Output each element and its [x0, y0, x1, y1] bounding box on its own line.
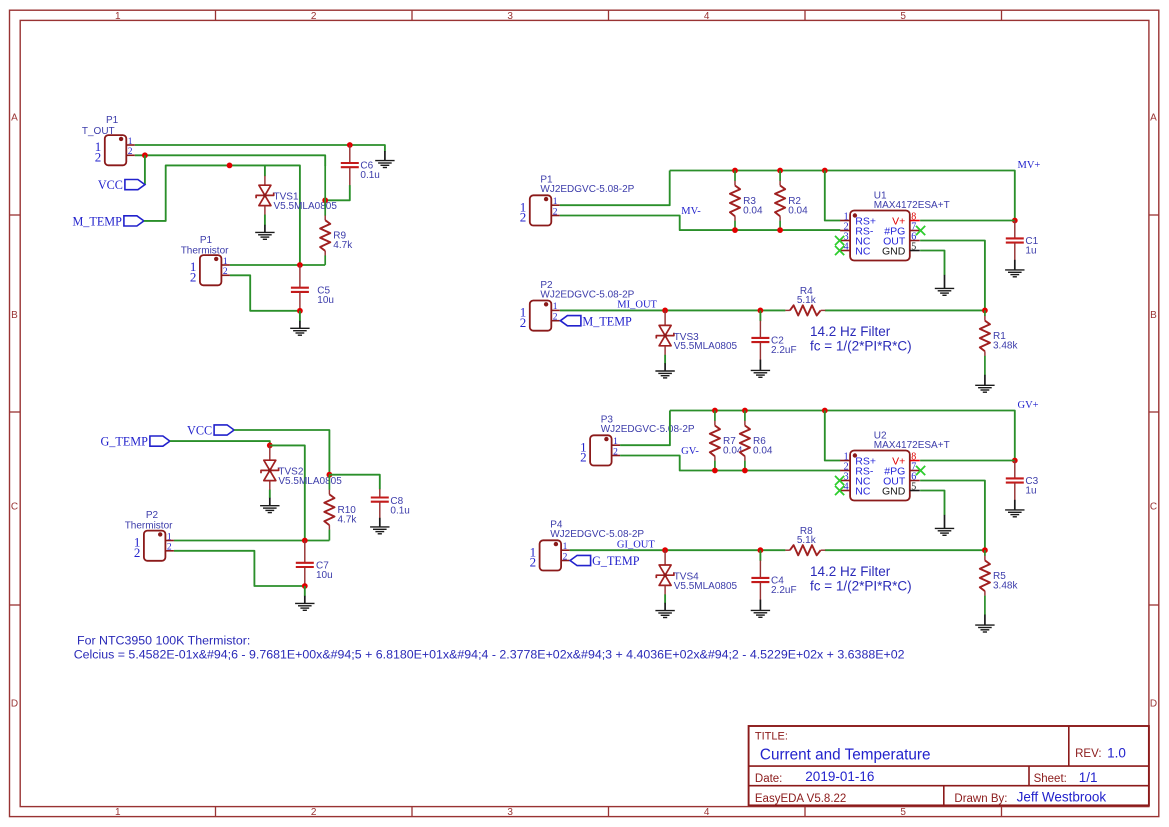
netflag G_TEMP (bottom-left)	[100, 435, 169, 449]
svg-text:0.04: 0.04	[743, 205, 763, 216]
wire TVS3 to ground	[664, 355, 666, 364]
junction R1 top	[982, 308, 988, 314]
svg-text:1: 1	[167, 532, 172, 542]
ground stub (C8)	[379, 518, 381, 527]
ground (C3)	[1005, 510, 1024, 517]
svg-text:0.04: 0.04	[723, 445, 743, 456]
C3 top lead	[1014, 461, 1016, 479]
C8 bottom lead	[379, 502, 381, 519]
wire TVS1 tap	[264, 165, 266, 176]
junction C5 top	[297, 262, 303, 268]
ground (TVS1)	[255, 232, 274, 239]
junction C2	[758, 308, 764, 314]
ground (C2)	[751, 370, 770, 377]
svg-text:G_TEMP: G_TEMP	[100, 435, 148, 449]
netflag VCC (top-left)	[98, 178, 145, 192]
wire P1.1 riser to rail	[560, 171, 670, 206]
svg-text:MAX4172ESA+T: MAX4172ESA+T	[874, 440, 950, 451]
junction C4	[758, 547, 764, 553]
junction rail R7	[712, 408, 718, 414]
no-connect X pin7 U1	[916, 226, 925, 235]
junction C5 bottom	[297, 308, 303, 314]
netflag G_TEMP (P4 pin2)	[570, 554, 640, 568]
wire GND pin to ground (U2)	[920, 491, 944, 516]
svg-text:2: 2	[553, 207, 558, 217]
svg-text:1: 1	[563, 542, 568, 552]
wire MV+ rail	[670, 171, 1015, 221]
svg-text:2: 2	[563, 552, 568, 562]
svg-text:5: 5	[900, 11, 906, 22]
svg-text:4: 4	[704, 807, 710, 818]
wire GI_OUT line right	[825, 549, 985, 551]
wire TVS1 to ground	[264, 215, 266, 226]
junction at VCC tap	[142, 152, 148, 158]
svg-text:Celcius = 5.4582E-01x&#94;6 -: Celcius = 5.4582E-01x&#94;6 - 9.7681E+00…	[74, 648, 905, 662]
C2 bottom lead	[759, 342, 761, 360]
wire P1.2 to RS-	[560, 216, 841, 231]
TVS1 top lead	[264, 176, 266, 185]
wire down to VCC flag	[144, 155, 146, 184]
svg-text:2: 2	[167, 543, 172, 553]
svg-text:1.0: 1.0	[1107, 745, 1126, 760]
svg-text:VCC: VCC	[187, 424, 212, 438]
wire therm2 pin2	[174, 551, 305, 586]
svg-text:C: C	[1150, 502, 1157, 513]
resistor R3 0.04	[730, 171, 763, 231]
junction RS- R3	[732, 227, 738, 233]
svg-text:A: A	[1150, 113, 1157, 124]
TVS4 bottom lead	[664, 585, 666, 594]
ground stub (C4)	[759, 600, 761, 611]
capacitor C4 2.2uF	[751, 576, 796, 597]
TVS diode TVS1	[256, 185, 337, 212]
C7 top lead	[304, 541, 306, 563]
ground (C8)	[370, 527, 389, 534]
ground (TVS2)	[260, 506, 279, 513]
connector P2 (WJ2EDGVC)	[520, 301, 560, 331]
svg-text:2: 2	[553, 313, 558, 323]
junction R5 top	[982, 547, 988, 553]
wire V+ to C1	[920, 220, 1015, 222]
connector P2 (Thermistor)	[134, 531, 174, 561]
netflag M_TEMP (P2 pin2)	[560, 314, 632, 328]
svg-text:2: 2	[128, 147, 133, 157]
svg-text:2: 2	[520, 315, 527, 330]
ground stub (U2 GND)	[944, 515, 946, 529]
svg-text:Current and Temperature: Current and Temperature	[760, 746, 931, 763]
svg-text:GV+: GV+	[1018, 400, 1039, 411]
junction RS- R6	[742, 468, 748, 474]
no-connect X pin3 U2	[835, 476, 844, 485]
connector P3 (WJ2EDGVC)	[580, 435, 620, 465]
ground (C5)	[290, 328, 309, 335]
svg-text:2: 2	[530, 555, 537, 570]
TVS diode TVS3	[656, 325, 737, 352]
ground stub (U1 GND)	[944, 275, 946, 289]
C7 bottom lead	[304, 567, 306, 586]
C4 top lead	[759, 561, 761, 578]
junction C6 top	[347, 142, 353, 148]
svg-text:3: 3	[507, 11, 513, 22]
junction VCC/R10/C8	[327, 472, 333, 478]
junction C7 top	[302, 538, 308, 544]
TVS2 bottom lead	[269, 481, 271, 490]
wire V+ to C3	[920, 460, 1015, 462]
svg-text:4.7k: 4.7k	[333, 240, 353, 251]
wire OUT to R1 node	[920, 241, 985, 311]
C3 bottom lead	[1014, 483, 1016, 501]
connector P1 (Thermistor)	[190, 255, 230, 285]
wire C2 tap	[759, 310, 761, 321]
resistor R7 0.04	[710, 411, 743, 471]
no-connect X pin3 U1	[835, 236, 844, 245]
svg-text:2019-01-16: 2019-01-16	[805, 769, 874, 784]
junction on node line	[227, 163, 233, 169]
svg-text:A: A	[11, 113, 18, 124]
op-amp U2 MAX4172ESA+T	[840, 430, 950, 500]
junction TVS3	[662, 308, 668, 314]
svg-text:10u: 10u	[317, 295, 334, 306]
junction TVS4	[662, 547, 668, 553]
svg-text:1: 1	[553, 302, 558, 312]
svg-text:5.1k: 5.1k	[797, 295, 817, 306]
wire P3.1 riser to rail	[620, 411, 670, 446]
ground (C1)	[1005, 270, 1024, 277]
svg-text:0.1u: 0.1u	[360, 170, 379, 181]
wire VCC to R10 column	[234, 430, 329, 475]
svg-text:GI_OUT: GI_OUT	[617, 539, 655, 550]
ground stub (TVS2)	[269, 498, 271, 506]
ground stub (C5)	[299, 321, 301, 329]
ground stub (R5)	[984, 615, 986, 626]
svg-text:GV-: GV-	[681, 446, 699, 457]
svg-text:D: D	[11, 699, 18, 710]
svg-text:P1: P1	[200, 235, 213, 246]
TVS diode TVS4	[656, 565, 737, 592]
svg-text:14.2 Hz Filter: 14.2 Hz Filter	[810, 324, 891, 339]
svg-text:Jeff Westbrook: Jeff Westbrook	[1017, 790, 1107, 805]
svg-text:M_TEMP: M_TEMP	[582, 314, 632, 328]
svg-text:5: 5	[911, 482, 916, 493]
svg-text:B: B	[1150, 310, 1157, 321]
wire C6 to R9 column	[325, 185, 350, 200]
wire C5 to ground	[299, 311, 301, 321]
svg-text:1: 1	[223, 257, 228, 267]
junction C7 bottom	[302, 583, 308, 589]
connector P4 (WJ2EDGVC)	[530, 540, 570, 570]
capacitor C6 0.1u	[341, 161, 380, 182]
wire thermistor pin1	[230, 264, 325, 266]
svg-text:2: 2	[190, 270, 197, 285]
junction RS- R2	[777, 227, 783, 233]
svg-text:2: 2	[613, 447, 618, 457]
ground stub (C2)	[759, 360, 761, 371]
svg-text:V5.5MLA0805: V5.5MLA0805	[674, 581, 738, 592]
TVS3 top lead	[664, 310, 666, 325]
wire RS+ from rail (G)	[825, 411, 841, 461]
svg-text:B: B	[11, 310, 18, 321]
ground (R1)	[975, 385, 994, 392]
wire C7 to ground	[304, 586, 306, 596]
junction TVS2	[267, 443, 273, 449]
capacitor C3 1u	[1006, 476, 1039, 497]
junction rail RS+	[822, 168, 828, 174]
TVS1 bottom lead	[264, 206, 266, 215]
svg-text:1: 1	[128, 137, 133, 147]
resistor R4 5.1k	[785, 286, 825, 316]
wire therm2 pin1	[174, 540, 330, 542]
title block grid	[749, 726, 1149, 805]
svg-text:MAX4172ESA+T: MAX4172ESA+T	[874, 200, 950, 211]
junction rail R3	[732, 168, 738, 174]
junction V+ / C3	[1012, 458, 1018, 464]
svg-text:2: 2	[520, 210, 527, 225]
wire thermistor pin2	[230, 275, 300, 311]
junction RS- R7	[712, 468, 718, 474]
resistor R5 3.48k	[980, 550, 1019, 615]
svg-text:0.04: 0.04	[753, 445, 773, 456]
capacitor C5 10u	[291, 285, 334, 306]
svg-text:GND: GND	[882, 245, 906, 257]
TVS2 top lead	[269, 445, 271, 460]
C1 bottom lead	[1014, 243, 1016, 261]
capacitor C1 1u	[1006, 236, 1039, 257]
TVS diode TVS2	[261, 460, 342, 487]
wire GND pin to ground	[920, 251, 944, 276]
junction V+ / C1	[1012, 218, 1018, 224]
ground (top right)	[384, 151, 386, 161]
svg-text:TITLE:: TITLE:	[755, 730, 788, 742]
wire RS+ from rail	[825, 171, 841, 221]
svg-text:1: 1	[553, 197, 558, 207]
capacitor C2 2.2uF	[751, 336, 796, 357]
resistor R8 5.1k	[785, 526, 825, 556]
svg-text:MI_OUT: MI_OUT	[617, 300, 657, 311]
svg-text:For NTC3950 100K Thermistor:: For NTC3950 100K Thermistor:	[77, 633, 250, 647]
wire OUT to R5 node	[920, 481, 985, 551]
svg-text:V5.5MLA0805: V5.5MLA0805	[674, 341, 738, 352]
wire G_TEMP to TVS2	[170, 441, 270, 445]
ground stub (R1)	[984, 375, 986, 386]
wire C4 tap	[759, 550, 761, 561]
ground (TVS4)	[655, 611, 674, 618]
svg-text:D: D	[1150, 699, 1157, 710]
svg-text:1u: 1u	[1025, 486, 1036, 497]
wire GI_OUT line left	[570, 549, 786, 551]
svg-text:P2: P2	[146, 510, 159, 521]
op-amp U1 MAX4172ESA+T	[840, 190, 950, 260]
ground (U2 GND)	[935, 528, 954, 535]
svg-text:C: C	[11, 502, 18, 513]
capacitor C7 10u	[296, 560, 333, 581]
svg-text:EasyEDA V5.8.22: EasyEDA V5.8.22	[755, 793, 846, 805]
svg-text:2: 2	[95, 150, 102, 165]
svg-text:3: 3	[507, 807, 513, 818]
resistor R2 0.04	[775, 171, 808, 231]
svg-text:V5.5MLA0805: V5.5MLA0805	[274, 201, 338, 212]
connector P1 (WJ2EDGVC)	[520, 195, 560, 225]
no-connect X pin7 U2	[916, 466, 925, 475]
junction rail RS+ (G)	[822, 408, 828, 414]
svg-text:REV:: REV:	[1075, 748, 1101, 760]
svg-text:2.2uF: 2.2uF	[771, 585, 797, 596]
svg-text:4.7k: 4.7k	[338, 514, 358, 525]
svg-text:2: 2	[311, 11, 317, 22]
ground stub (C1)	[1014, 260, 1016, 270]
wire P1.1 to top-right ground	[135, 145, 385, 151]
junction C6/R9	[322, 197, 328, 203]
svg-text:1: 1	[115, 807, 121, 818]
wire GV+ rail	[670, 411, 1015, 461]
svg-text:MV-: MV-	[681, 206, 701, 217]
svg-text:5: 5	[911, 242, 916, 253]
C2 top lead	[759, 321, 761, 338]
svg-text:14.2 Hz Filter: 14.2 Hz Filter	[810, 564, 891, 579]
netflag M_TEMP (top-left)	[72, 215, 143, 229]
wire TVS4 to ground	[664, 594, 666, 603]
wire P1.2 to R9 column	[135, 155, 325, 166]
svg-text:VCC: VCC	[98, 178, 123, 192]
svg-text:3.48k: 3.48k	[993, 580, 1018, 591]
wire MI_OUT line right	[825, 309, 985, 311]
svg-text:1: 1	[613, 437, 618, 447]
svg-text:4: 4	[704, 11, 710, 22]
junction rail R6	[742, 408, 748, 414]
ground stub (C3)	[1014, 500, 1016, 510]
wire TVS2 node to C7 column	[270, 445, 305, 540]
C5 bottom lead	[299, 292, 301, 311]
ground (U1 GND)	[935, 288, 954, 295]
svg-text:P1: P1	[106, 115, 119, 126]
svg-text:3.48k: 3.48k	[993, 341, 1018, 352]
svg-text:MV+: MV+	[1018, 160, 1041, 171]
svg-text:Sheet:: Sheet:	[1034, 773, 1067, 785]
netflag VCC (bottom-left)	[187, 424, 234, 438]
svg-text:fc = 1/(2*PI*R*C): fc = 1/(2*PI*R*C)	[810, 338, 912, 353]
C6 top lead	[349, 145, 351, 163]
C6 bottom lead	[349, 167, 351, 185]
TVS4 top lead	[664, 550, 666, 565]
connector P1 (T_OUT)	[95, 135, 135, 165]
no-connect X pin4 U1	[835, 246, 844, 255]
svg-text:2: 2	[580, 450, 587, 465]
svg-text:2: 2	[223, 267, 228, 277]
svg-text:10u: 10u	[316, 570, 333, 581]
resistor R9 4.7k	[320, 166, 353, 265]
ground (TVS3)	[655, 371, 674, 378]
no-connect X pin4 U2	[835, 486, 844, 495]
C1 top lead	[1014, 221, 1016, 239]
ground stub (TVS3)	[664, 363, 666, 371]
C4 bottom lead	[759, 582, 761, 600]
svg-text:2: 2	[134, 545, 141, 560]
ground stub (TVS1)	[264, 225, 266, 233]
ground (C7)	[295, 603, 314, 610]
svg-text:WJ2EDGVC-5.08-2P: WJ2EDGVC-5.08-2P	[540, 184, 634, 195]
ground (R5)	[975, 625, 994, 632]
svg-text:GND: GND	[882, 485, 906, 497]
svg-text:V5.5MLA0805: V5.5MLA0805	[278, 476, 342, 487]
wire M_TEMP to node line	[144, 165, 300, 265]
wire TVS2 to ground	[269, 490, 271, 499]
svg-text:Date:: Date:	[755, 773, 783, 785]
svg-text:M_TEMP: M_TEMP	[72, 215, 122, 229]
junction rail R2	[777, 168, 783, 174]
svg-text:Drawn By:: Drawn By:	[954, 793, 1007, 805]
capacitor C8 0.1u	[371, 496, 410, 517]
svg-text:1: 1	[115, 11, 121, 22]
svg-text:0.04: 0.04	[788, 205, 808, 216]
svg-text:WJ2EDGVC-5.08-2P: WJ2EDGVC-5.08-2P	[601, 424, 695, 435]
svg-text:NC: NC	[855, 245, 871, 257]
ground stub (TVS4)	[664, 603, 666, 611]
svg-text:fc = 1/(2*PI*R*C): fc = 1/(2*PI*R*C)	[810, 578, 912, 593]
svg-text:0.1u: 0.1u	[390, 506, 409, 517]
ground (C4)	[751, 610, 770, 617]
svg-text:WJ2EDGVC-5.08-2P: WJ2EDGVC-5.08-2P	[540, 289, 634, 300]
svg-text:2: 2	[311, 807, 317, 818]
C8 top lead	[379, 489, 381, 498]
C5 top lead	[299, 265, 301, 288]
svg-text:5: 5	[900, 807, 906, 818]
wire to C8	[329, 475, 379, 490]
TVS3 bottom lead	[664, 346, 666, 355]
svg-text:5.1k: 5.1k	[797, 535, 817, 546]
resistor R6 0.04	[740, 411, 773, 471]
svg-text:1/1: 1/1	[1079, 770, 1098, 785]
svg-text:NC: NC	[855, 485, 871, 497]
wire MI_OUT line left	[560, 309, 786, 311]
ground bars (top right)	[375, 161, 394, 168]
svg-text:1u: 1u	[1025, 246, 1036, 257]
resistor R1 3.48k	[980, 310, 1019, 375]
ground stub (C7)	[304, 596, 306, 604]
wire P3.2 to RS- (G)	[620, 456, 840, 471]
resistor R10 4.7k	[324, 475, 357, 541]
svg-text:2.2uF: 2.2uF	[771, 345, 797, 356]
svg-text:G_TEMP: G_TEMP	[592, 554, 640, 568]
